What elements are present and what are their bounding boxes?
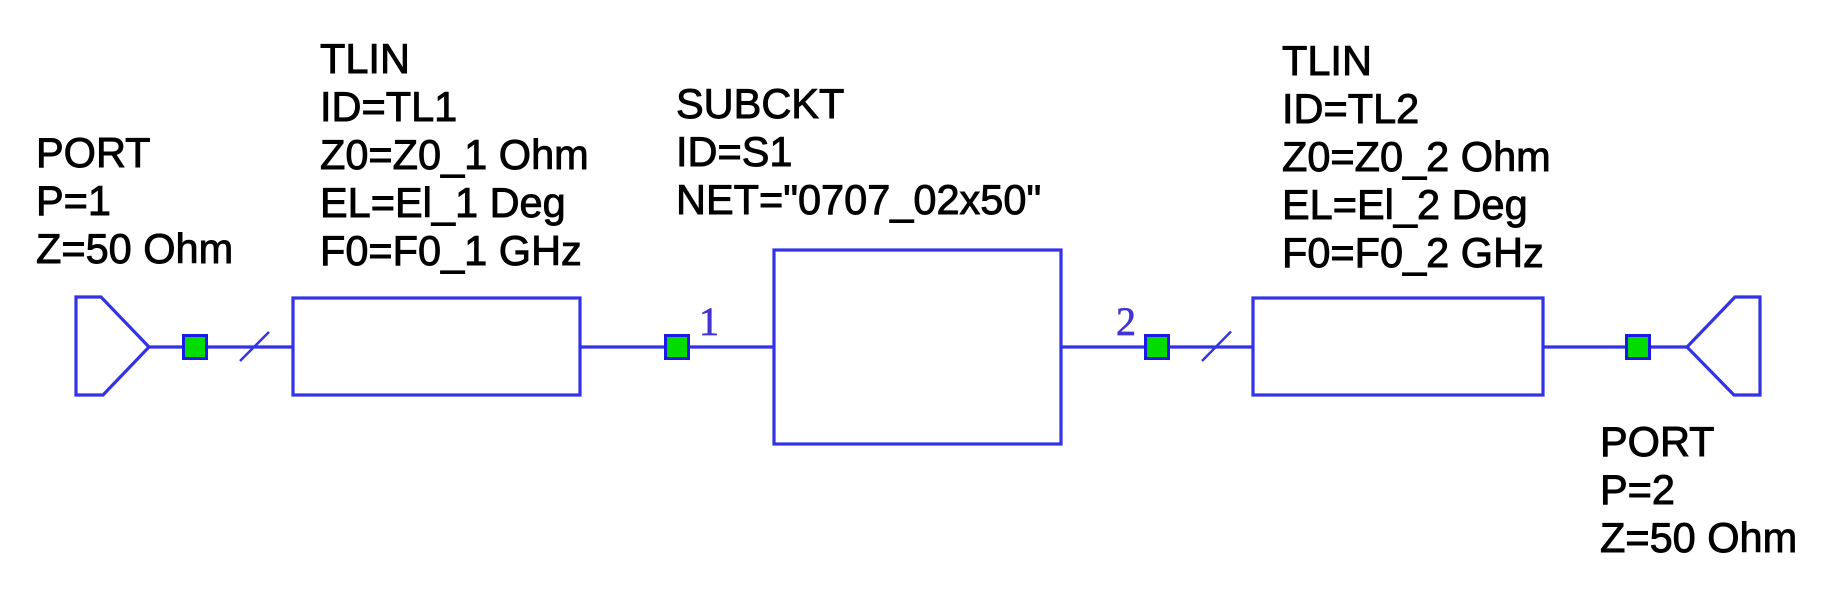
wire TL1 to SUBCKT pin 1 [580,345,774,348]
label PORT P=1 parameters [36,129,233,272]
svg-text:Z=50 Ohm: Z=50 Ohm [1600,514,1797,561]
wire SUBCKT pin 2 to TL2 [1061,345,1253,348]
svg-text:SUBCKT: SUBCKT [676,80,844,127]
slash mark on TL2 wire [1202,332,1231,362]
svg-text:1: 1 [699,299,719,344]
slash mark on port1 wire [240,332,269,361]
svg-text:Z0=Z0_1 Ohm: Z0=Z0_1 Ohm [320,131,589,178]
svg-text:PORT: PORT [36,129,151,176]
wire TL2 to port2 [1543,345,1687,348]
svg-text:TLIN: TLIN [1282,37,1372,84]
svg-text:EL=El_1 Deg: EL=El_1 Deg [320,179,566,226]
svg-text:ID=TL1: ID=TL1 [320,83,457,130]
subcircuit S1 body [774,250,1061,444]
svg-text:P=2: P=2 [1600,466,1675,513]
svg-text:F0=F0_1 GHz: F0=F0_1 GHz [320,227,582,274]
svg-text:PORT: PORT [1600,418,1715,465]
wire port1 to TL1 [149,345,293,348]
transmission line TL2 body [1253,298,1543,395]
node terminal square T1 [184,336,207,359]
label SUBCKT S1 parameters [676,80,1041,223]
node terminal square T4 [1627,336,1650,359]
svg-text:F0=F0_2 GHz: F0=F0_2 GHz [1282,229,1544,276]
svg-text:Z0=Z0_2 Ohm: Z0=Z0_2 Ohm [1282,133,1551,180]
label PORT P=2 parameters [1600,418,1797,561]
node terminal square T3 [1146,336,1169,359]
node terminal square T2 [666,336,689,359]
label TLIN TL1 parameters [320,35,589,274]
transmission line TL1 body [293,298,580,395]
svg-text:P=1: P=1 [36,177,111,224]
svg-text:TLIN: TLIN [320,35,410,82]
port P2 symbol [1687,297,1760,395]
svg-text:ID=S1: ID=S1 [676,128,793,175]
svg-text:NET="0707_02x50": NET="0707_02x50" [676,176,1041,223]
port P1 symbol [76,297,149,395]
svg-text:EL=El_2 Deg: EL=El_2 Deg [1282,181,1528,228]
svg-text:Z=50 Ohm: Z=50 Ohm [36,225,233,272]
svg-text:ID=TL2: ID=TL2 [1282,85,1419,132]
label TLIN TL2 parameters [1282,37,1551,276]
svg-text:2: 2 [1116,299,1136,344]
